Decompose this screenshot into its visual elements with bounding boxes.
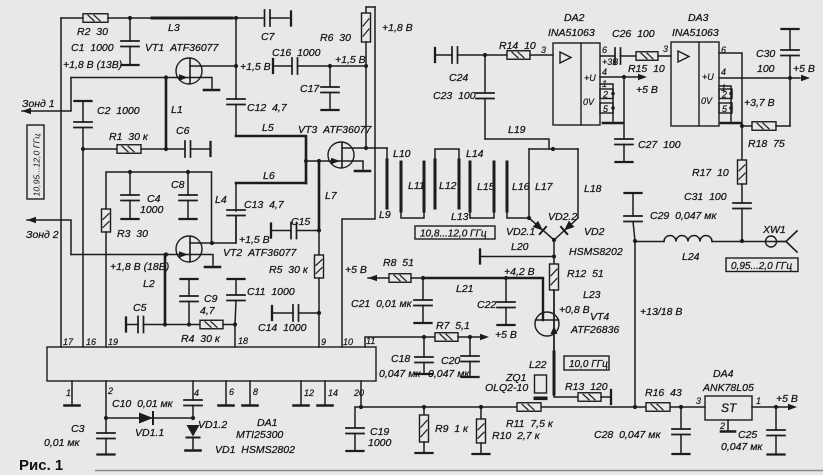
capacitor C17 [329, 66, 331, 87]
svg-text:C7: C7 [261, 31, 276, 43]
transistor VT2 ATF36077 [176, 236, 202, 262]
inductor L24 [635, 241, 664, 243]
svg-text:0,047 мк: 0,047 мк [428, 368, 470, 380]
svg-text:3: 3 [541, 45, 546, 55]
svg-text:C3: C3 [71, 423, 85, 435]
svg-text:C21 0,01 мк: C21 0,01 мк [351, 298, 413, 310]
pin 20 [360, 381, 362, 407]
inductor L4 [211, 172, 213, 243]
resistor R3 [102, 209, 111, 232]
pin 6 [225, 381, 227, 404]
microstrip L22 [553, 352, 556, 394]
svg-text:6: 6 [229, 387, 234, 397]
capacitor C3 [105, 418, 107, 433]
wire +5V arrow [470, 336, 480, 338]
svg-text:+U: +U [702, 72, 714, 82]
svg-text:9: 9 [321, 337, 326, 347]
svg-text:100: 100 [757, 63, 775, 75]
pin 2 box [600, 89, 613, 99]
svg-text:C16 1000: C16 1000 [272, 47, 321, 59]
node C20 [468, 335, 472, 339]
wire +13/18V vertical [634, 241, 636, 407]
svg-text:L3: L3 [168, 22, 180, 34]
wire [232, 17, 263, 19]
svg-text:+4,2 В: +4,2 В [504, 266, 535, 278]
node L4 bottom [210, 241, 214, 245]
node +13/18V [633, 405, 637, 409]
node junction [234, 16, 238, 20]
microstrip L3 [152, 17, 232, 20]
svg-text:L11: L11 [408, 180, 425, 192]
wire VT3 drain [342, 147, 387, 149]
svg-text:R10 2,7 к: R10 2,7 к [492, 430, 541, 442]
svg-text:C29 0,047 мк: C29 0,047 мк [650, 210, 717, 222]
node C23 [483, 53, 487, 57]
svg-text:ST: ST [721, 401, 738, 415]
svg-text:L16: L16 [512, 181, 530, 193]
svg-text:14: 14 [328, 388, 338, 398]
wire pin 18 [234, 325, 236, 348]
svg-text:+13/18 В: +13/18 В [640, 306, 682, 318]
capacitor C14 [271, 306, 273, 320]
svg-text:INA51063: INA51063 [672, 27, 719, 39]
diode VD1.1 [106, 417, 193, 419]
resistor R13 [578, 393, 601, 402]
node R10 [479, 405, 483, 409]
svg-text:+3В: +3В [602, 57, 618, 67]
svg-text:+1,8 В: +1,8 В [382, 22, 413, 34]
svg-text:R7 5,1: R7 5,1 [436, 320, 470, 332]
wire +5V arrow R8 [368, 275, 377, 281]
svg-text:C13 4,7: C13 4,7 [244, 199, 285, 211]
wire bottom rail [355, 406, 705, 408]
svg-text:3: 3 [663, 44, 668, 54]
node R1 right [164, 147, 168, 151]
resistor R9 [423, 407, 425, 415]
wire pin 4 +5V [600, 76, 624, 78]
svg-text:1: 1 [66, 388, 71, 398]
svg-text:0,01 мк: 0,01 мк [44, 437, 81, 449]
svg-text:OLQ2-10: OLQ2-10 [485, 382, 528, 394]
svg-text:+0,8 В: +0,8 В [559, 304, 590, 316]
node L1 top [164, 75, 168, 79]
node C4 [128, 170, 132, 174]
svg-text:C10 0,01 мк: C10 0,01 мк [112, 398, 174, 410]
wire pin 11 [365, 337, 424, 347]
svg-text:R18 75: R18 75 [748, 138, 785, 150]
svg-text:C17: C17 [300, 83, 320, 95]
svg-text:4,7: 4,7 [200, 305, 216, 317]
svg-text:R14 10: R14 10 [499, 40, 536, 52]
capacitor C29 [625, 192, 642, 194]
svg-text:+U: +U [584, 73, 596, 83]
pin 4 / capacitor C10 [192, 381, 194, 400]
svg-text:+5 В: +5 В [495, 329, 517, 341]
wire VT3 source to ground [342, 161, 363, 169]
wire drain to C13 [212, 217, 236, 244]
microstrip L9 [386, 148, 388, 160]
svg-text:VT3 ATF36077: VT3 ATF36077 [298, 124, 373, 136]
node C15 R5 [317, 228, 321, 232]
svg-text:+1,8 В (13В): +1,8 В (13В) [63, 59, 122, 71]
inductor L20 [479, 250, 481, 264]
wire C12 chain [235, 18, 237, 66]
capacitor C2 [75, 100, 92, 102]
svg-text:10: 10 [343, 337, 353, 347]
inductor L7 [318, 161, 321, 231]
wire VT3 gate [306, 160, 341, 162]
capacitor C8 [187, 172, 189, 195]
capacitor C19 [354, 407, 356, 428]
svg-text:R3 30: R3 30 [117, 228, 148, 240]
capacitor C16 [272, 59, 274, 73]
svg-text:L22: L22 [529, 359, 547, 371]
svg-text:L17: L17 [535, 181, 554, 193]
svg-text:L1: L1 [171, 104, 183, 116]
svg-text:C23 100: C23 100 [433, 90, 476, 102]
capacitor C7 [265, 10, 271, 26]
wire pins 1-2-5 to ground [600, 84, 613, 121]
capacitor C27 [623, 77, 625, 139]
wire VT1 gate [71, 77, 189, 79]
node C8 [186, 170, 190, 174]
IC DA1 MTI25300 box [47, 347, 376, 381]
svg-text:C8: C8 [171, 179, 185, 191]
node C14 pin9 [317, 311, 321, 315]
svg-text:L12: L12 [439, 180, 457, 192]
svg-text:2: 2 [107, 386, 113, 396]
svg-text:C18: C18 [391, 353, 410, 365]
svg-text:R15 10: R15 10 [628, 63, 665, 75]
capacitor C4 [129, 172, 131, 195]
capacitor C1 [129, 18, 131, 41]
svg-text:0,95...2,0 ГГц: 0,95...2,0 ГГц [731, 261, 792, 272]
svg-text:12: 12 [304, 388, 314, 398]
svg-text:DA2: DA2 [564, 12, 585, 24]
capacitor C11 [228, 278, 245, 280]
svg-text:L10: L10 [393, 148, 411, 160]
svg-text:L15: L15 [477, 181, 495, 193]
label 10,95-12,0 GHz box [27, 125, 44, 199]
svg-text:C5: C5 [133, 302, 147, 314]
resistor R10 [480, 407, 482, 419]
svg-text:6: 6 [602, 45, 607, 55]
connector XW1 [766, 236, 777, 247]
resistor R11 [517, 403, 541, 412]
svg-text:C20: C20 [441, 355, 460, 367]
node C9 bottom [187, 322, 191, 326]
node R1 left / pin16 line [81, 147, 85, 151]
svg-text:4: 4 [602, 67, 607, 77]
rail C4 C8 top [106, 172, 212, 209]
pin 1 [71, 381, 73, 404]
svg-text:L13: L13 [451, 211, 469, 223]
svg-text:C24: C24 [449, 72, 468, 84]
IC DA2 INA51063 [553, 43, 600, 125]
svg-text:16: 16 [86, 337, 96, 347]
capacitor C20 [469, 337, 471, 356]
label 10,8-12,0 GHz box [415, 226, 495, 239]
svg-text:C31 100: C31 100 [684, 191, 727, 203]
wire pin6 + capacitor C26 [600, 55, 615, 57]
capacitor C28 [680, 407, 682, 429]
svg-text:C2 1000: C2 1000 [97, 105, 140, 117]
ground [205, 266, 220, 269]
microstrip L12 [434, 160, 437, 208]
svg-text:L21: L21 [456, 283, 474, 295]
svg-text:DA4: DA4 [713, 368, 734, 380]
svg-text:C28 0,047 мк: C28 0,047 мк [594, 429, 661, 441]
capacitor C13 [235, 183, 237, 211]
capacitor C22 [505, 278, 507, 302]
svg-text:L24: L24 [682, 251, 700, 263]
microstrip L6 [236, 182, 306, 185]
pin 14 [324, 381, 326, 404]
svg-text:4: 4 [194, 388, 199, 398]
capacitor C6 [166, 148, 185, 150]
pin 12 [300, 381, 302, 404]
svg-text:VT1 ATF36077: VT1 ATF36077 [145, 42, 220, 54]
svg-text:2: 2 [602, 90, 608, 100]
resistor R1 [83, 148, 117, 150]
wire source corner [554, 394, 578, 397]
node R9 [422, 405, 426, 409]
svg-text:Зонд 2: Зонд 2 [26, 229, 59, 241]
svg-text:L18: L18 [584, 183, 602, 195]
svg-text:L5: L5 [262, 122, 274, 134]
svg-text:C22: C22 [477, 299, 496, 311]
svg-text:R4 30 к: R4 30 к [181, 333, 221, 345]
svg-text:0,047 мк: 0,047 мк [379, 368, 421, 380]
capacitor C9 [181, 278, 198, 280]
svg-text:R11 7,5 к: R11 7,5 к [506, 418, 554, 430]
pin 5 box [600, 103, 613, 113]
svg-text:+5 В: +5 В [345, 264, 367, 276]
wire VT2 gate arrow [166, 254, 189, 256]
IC DA3 INA51063 [671, 42, 719, 126]
wire pins to ground [719, 86, 731, 121]
diode VD2.2 [554, 218, 578, 240]
resistor R15 [636, 52, 658, 61]
resistor R4 [200, 320, 223, 329]
ground [355, 170, 370, 173]
svg-text:C14 1000: C14 1000 [258, 322, 307, 334]
svg-text:C30: C30 [756, 48, 775, 60]
node VT2 gate [164, 252, 168, 256]
svg-text:1000: 1000 [140, 204, 164, 216]
svg-text:VD1.1: VD1.1 [135, 427, 164, 439]
wire +1,8V stub [366, 6, 375, 8]
capacitor C30 [782, 28, 799, 30]
svg-text:+1,5 В: +1,5 В [335, 54, 366, 66]
svg-text:R1 30 к: R1 30 к [109, 131, 149, 143]
resistor R5 [318, 231, 320, 256]
node drain R6 line [364, 146, 368, 150]
svg-text:C9: C9 [204, 293, 218, 305]
svg-text:L14: L14 [466, 148, 484, 160]
svg-text:8: 8 [253, 387, 258, 397]
svg-text:VD1.2: VD1.2 [198, 419, 227, 431]
microstrip L10 [400, 162, 403, 211]
capacitor C18 [423, 337, 425, 357]
svg-text:R6 30: R6 30 [320, 32, 351, 44]
node +1,5V R6 [364, 64, 368, 68]
inductor L19 [485, 139, 549, 149]
IC DA4 ANK78L05 [705, 396, 752, 420]
svg-text:L9: L9 [379, 209, 391, 221]
node junction C1 [128, 16, 132, 20]
svg-text:2: 2 [719, 421, 725, 431]
svg-text:C26 100: C26 100 [612, 28, 655, 40]
wire L17-L18 top [529, 148, 578, 150]
node L2 bottom [163, 322, 167, 326]
svg-text:10,95...12,0 ГГц: 10,95...12,0 ГГц [32, 134, 42, 197]
svg-text:L19: L19 [508, 124, 526, 136]
svg-text:17: 17 [63, 337, 74, 347]
svg-text:10,0 ГГц: 10,0 ГГц [569, 359, 608, 370]
diode VD2.1 [529, 218, 554, 240]
wire [165, 324, 200, 326]
svg-text:4: 4 [721, 67, 726, 77]
svg-text:19: 19 [108, 337, 118, 347]
diode VD1.2 [187, 425, 200, 437]
svg-text:R16 43: R16 43 [645, 387, 682, 399]
microstrip L18 [577, 149, 579, 218]
svg-text:+1,8 В (18В): +1,8 В (18В) [110, 261, 169, 273]
svg-text:MTI25300: MTI25300 [236, 429, 283, 441]
svg-text:+1,5 В: +1,5 В [239, 234, 270, 246]
svg-text:Рис. 1: Рис. 1 [19, 457, 63, 474]
pin 2 [105, 381, 107, 418]
svg-text:L2: L2 [143, 278, 155, 290]
label 0,95-2,0 GHz box [726, 258, 798, 272]
node C22 [504, 276, 508, 280]
svg-text:2: 2 [721, 90, 727, 100]
node C17 [328, 64, 332, 68]
svg-text:L7: L7 [325, 190, 338, 202]
svg-text:C15: C15 [291, 216, 310, 228]
svg-text:10,8...12,0 ГГц: 10,8...12,0 ГГц [420, 229, 487, 240]
pin 2 box [719, 89, 732, 99]
node L24 R17 [740, 239, 744, 243]
svg-text:XW1: XW1 [762, 224, 786, 236]
svg-text:0V: 0V [701, 96, 713, 106]
svg-text:+5 В: +5 В [776, 393, 798, 405]
capacitor C5 [125, 318, 127, 332]
resistor R6 [365, 7, 367, 13]
pin 2 ground [727, 420, 729, 430]
svg-text:+5 В: +5 В [636, 84, 658, 96]
capacitor C15 [270, 224, 272, 238]
resistor R7 [424, 336, 435, 338]
svg-text:ANK78L05: ANK78L05 [702, 382, 754, 394]
node C18 [422, 335, 426, 339]
svg-text:DA3: DA3 [688, 12, 709, 24]
svg-text:VD2.2: VD2.2 [548, 211, 577, 223]
svg-text:VD2.1: VD2.1 [506, 226, 535, 238]
svg-text:ATF26836: ATF26836 [570, 324, 619, 336]
svg-text:VT2 ATF36077: VT2 ATF36077 [223, 247, 298, 259]
resistor R16 [646, 403, 670, 412]
resistor R18 [740, 124, 744, 128]
resistor R8 [389, 274, 411, 283]
wire VT1 drain [190, 65, 236, 67]
wire pin 4 +5V [719, 77, 790, 79]
svg-text:1: 1 [756, 396, 761, 406]
wire VT1 source to ground [190, 78, 212, 89]
node L24 left [633, 239, 637, 243]
pin 5 box [719, 103, 732, 113]
svg-text:R5 30 к: R5 30 к [269, 264, 309, 276]
svg-text:L4: L4 [215, 194, 227, 206]
resonator ZQ1 [535, 375, 547, 393]
svg-text:20: 20 [353, 388, 364, 398]
svg-text:C6: C6 [176, 125, 190, 137]
label 10,0 GHz box [564, 356, 609, 370]
inductor L2 [164, 255, 167, 325]
resistor R14 [485, 54, 507, 56]
wire VT2 source to ground [190, 255, 213, 266]
svg-text:L23: L23 [583, 289, 601, 301]
capacitor C23 [484, 55, 486, 93]
svg-text:+1,5 В: +1,5 В [240, 61, 271, 73]
svg-text:DA1: DA1 [257, 417, 277, 429]
wire pin 16 vertical [82, 149, 84, 347]
pin 8 [249, 381, 251, 404]
ground [204, 89, 219, 92]
capacitor C21 [422, 278, 424, 300]
microstrip L21 [423, 278, 543, 320]
svg-text:+3,7 В: +3,7 В [744, 97, 775, 109]
microstrip L5 [236, 136, 306, 183]
wire VT4 channel [553, 290, 555, 352]
microstrip L17 [528, 149, 530, 218]
node C28 [679, 405, 683, 409]
capacitor C24 [434, 48, 436, 62]
svg-text:R17 10: R17 10 [692, 167, 729, 179]
wire L23 [553, 290, 555, 352]
svg-text:3: 3 [696, 396, 701, 406]
svg-text:R9 1 к: R9 1 к [435, 423, 469, 435]
wire [108, 17, 152, 19]
wire left vertical to pin 17 [60, 18, 62, 347]
svg-text:C11 1000: C11 1000 [247, 286, 295, 298]
svg-text:C1 1000: C1 1000 [71, 42, 114, 54]
svg-text:C12 4,7: C12 4,7 [247, 102, 288, 114]
svg-text:R2 30: R2 30 [77, 26, 108, 38]
microstrip L16 [506, 162, 509, 211]
resistor R17 [741, 126, 743, 160]
svg-text:R8 51: R8 51 [383, 257, 414, 269]
node C21 [421, 276, 425, 280]
svg-text:0V: 0V [583, 97, 595, 107]
wire VT2 drain [190, 242, 212, 244]
resistor R2 [83, 14, 108, 23]
wire DA4 out [752, 406, 776, 408]
wire R6 to VT3 drain [365, 66, 367, 148]
wire +1,8V(18V) gate bias [71, 254, 166, 256]
node R4 right pin18 [233, 322, 237, 326]
svg-text:VD1 HSMS2802: VD1 HSMS2802 [215, 444, 295, 456]
node VT3 gate tap [304, 159, 308, 163]
capacitor C25 [775, 407, 777, 430]
capacitor C12 [227, 99, 245, 105]
wire pin 10 from comb [342, 7, 375, 347]
svg-text:R12 51: R12 51 [567, 268, 604, 280]
transistor VT1 ATF36077 [176, 58, 202, 84]
node L7 top [317, 159, 321, 163]
svg-text:C27 100: C27 100 [638, 139, 681, 151]
